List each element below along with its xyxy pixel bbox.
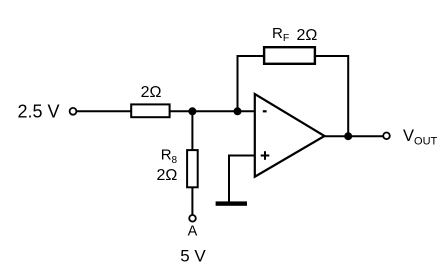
- wire input to R1: [77, 110, 131, 112]
- op-amp U1: [255, 94, 325, 177]
- resistor R1 2ohm: [131, 104, 169, 117]
- wire node A to node B: [192, 110, 237, 112]
- svg-text:2Ω: 2Ω: [297, 27, 318, 44]
- junction node A: [188, 107, 196, 115]
- op-amp plus sign: [261, 155, 270, 157]
- wire node A to R8: [191, 111, 193, 149]
- resistor RF: [264, 47, 315, 64]
- wire R8 to terminal A: [191, 188, 193, 215]
- junction node output: [344, 132, 352, 140]
- junction node B: [234, 107, 242, 115]
- svg-text:2Ω: 2Ω: [157, 167, 178, 184]
- wire R1 to node A: [170, 110, 193, 112]
- terminal 2.5 V: [70, 108, 77, 115]
- svg-text:2Ω: 2Ω: [141, 84, 162, 101]
- wire op-amp output: [325, 135, 384, 137]
- op-amp minus sign: [263, 110, 267, 112]
- resistor R8: [187, 150, 198, 187]
- svg-text:2.5 V: 2.5 V: [17, 102, 59, 122]
- wire noninverting input to ground: [229, 156, 255, 202]
- svg-text:A: A: [188, 223, 198, 239]
- ground: [216, 201, 247, 205]
- svg-text:5 V: 5 V: [180, 247, 206, 266]
- terminal VOUT: [383, 133, 390, 140]
- wire node B to op-amp inverting input: [238, 110, 255, 112]
- wire feedback right vertical: [315, 56, 348, 136]
- terminal A: [189, 215, 196, 222]
- wire feedback left vertical: [238, 56, 264, 111]
